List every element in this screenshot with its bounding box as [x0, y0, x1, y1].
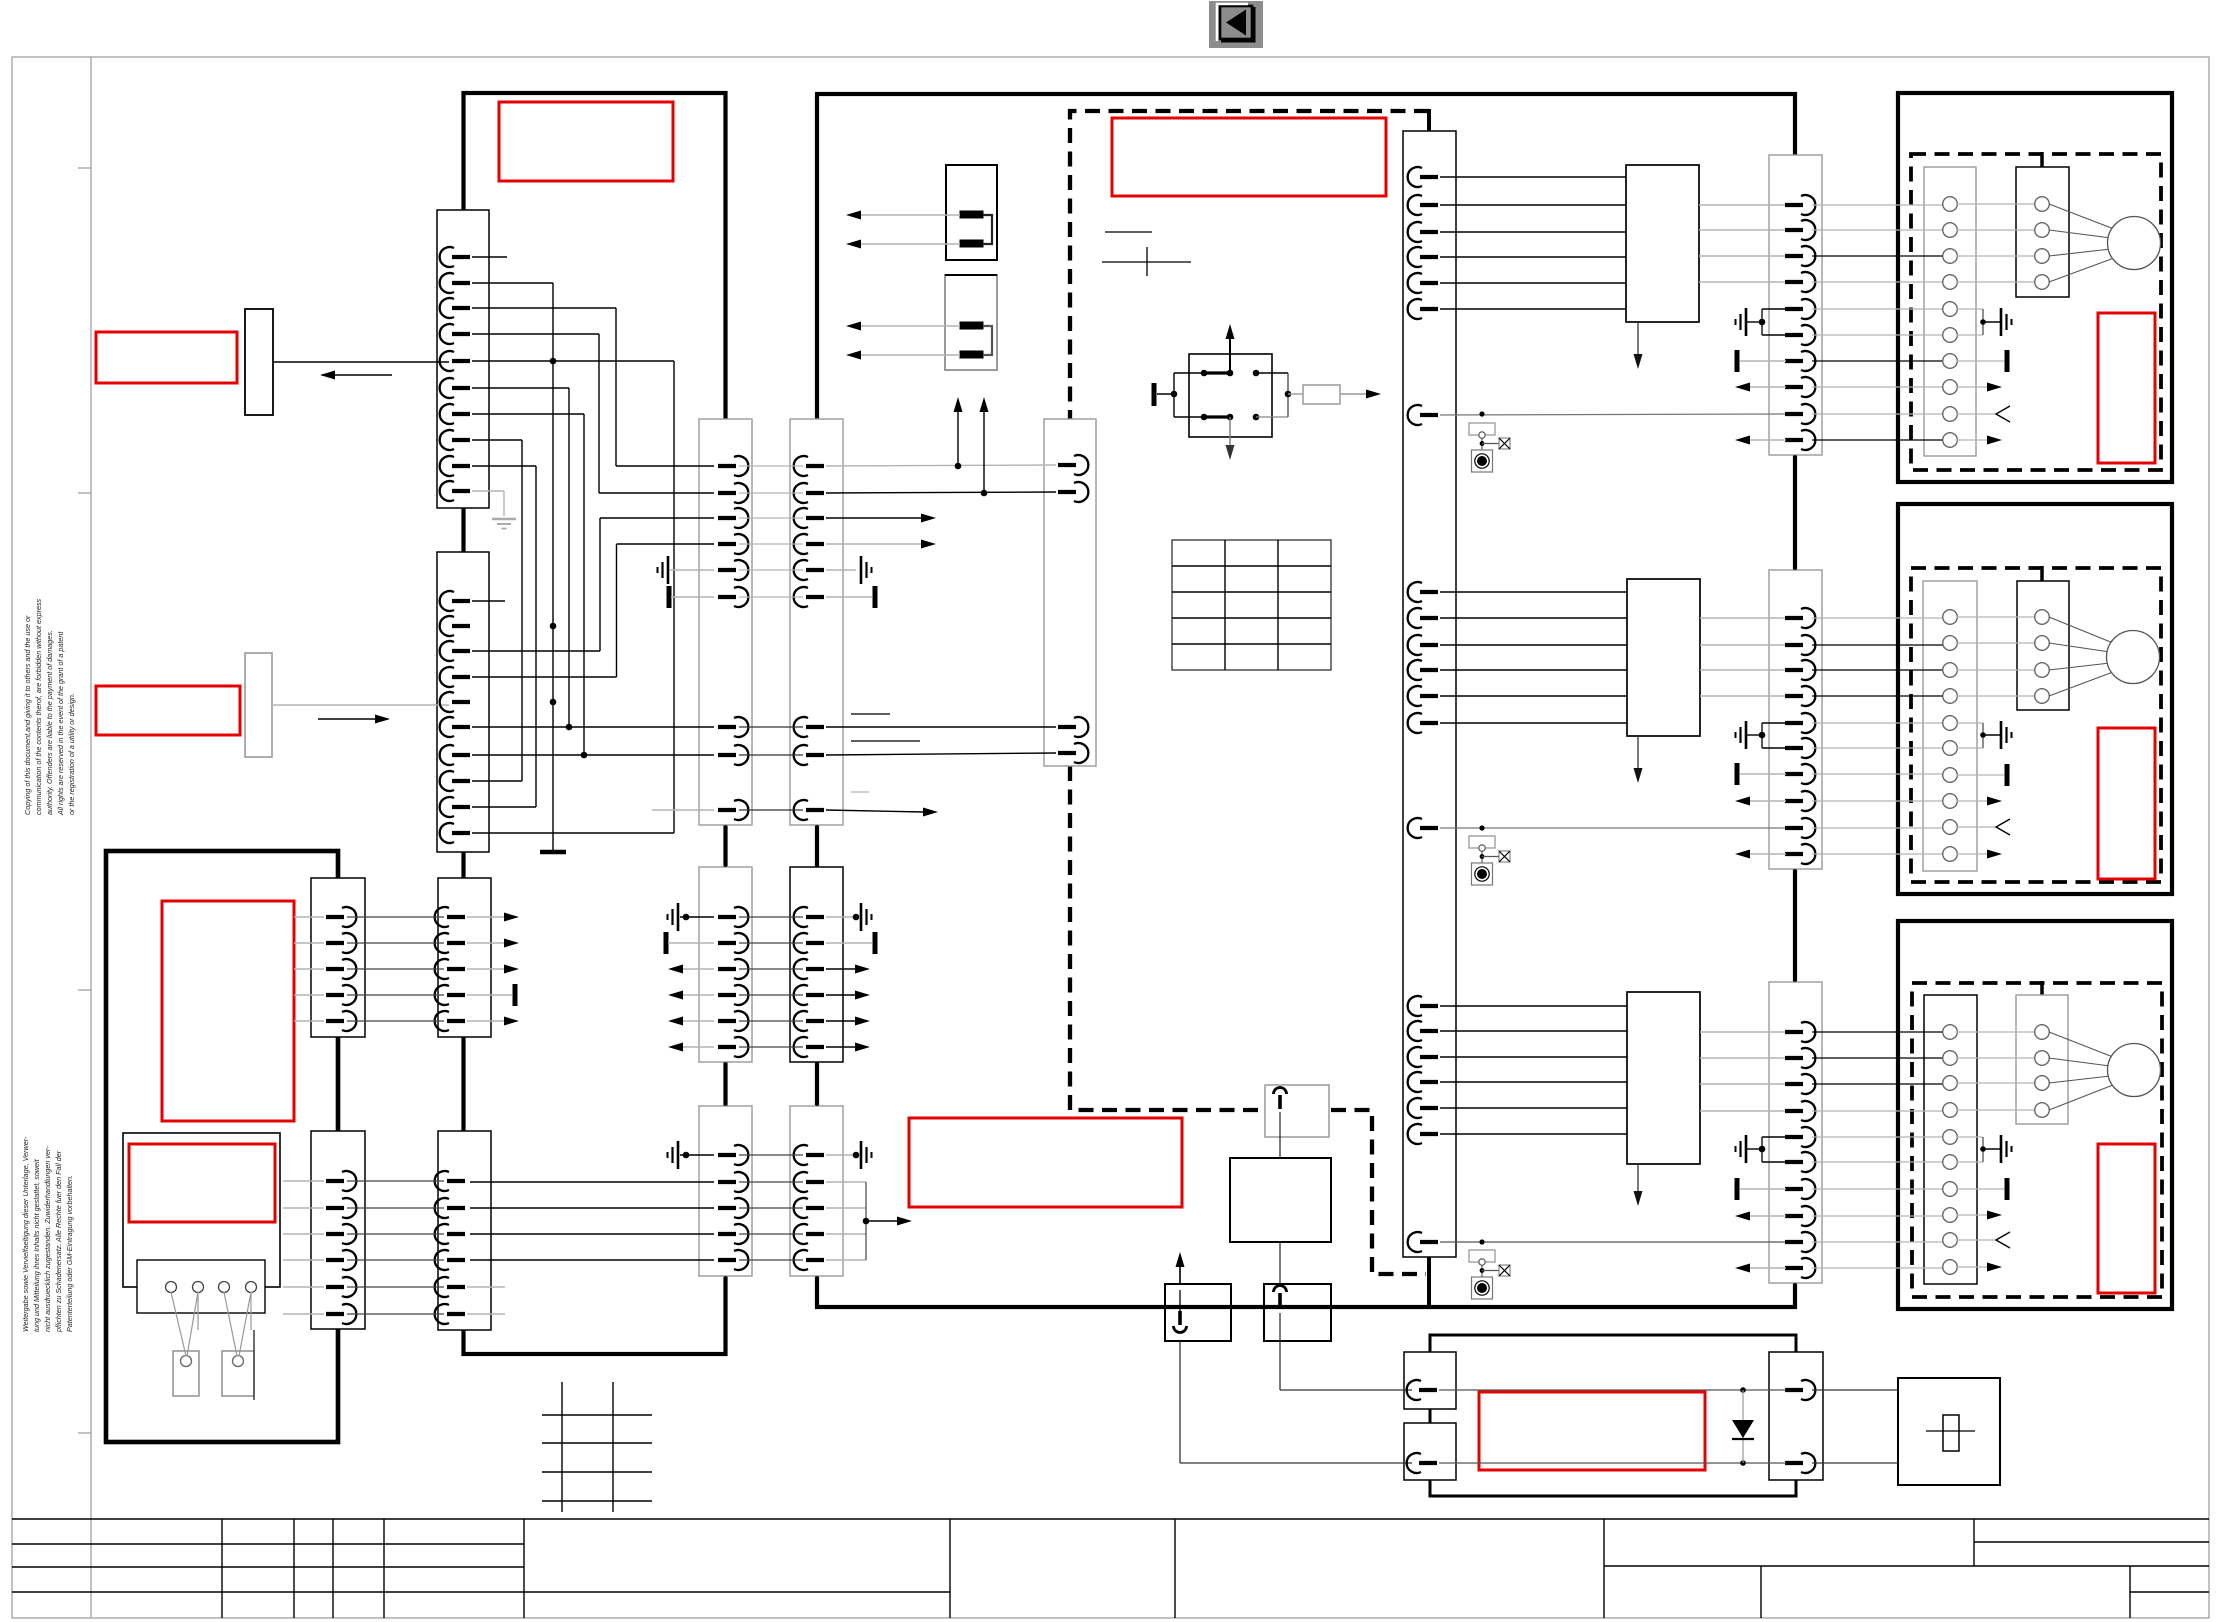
connector X4c (K2 left edge, lower)	[790, 1106, 843, 1276]
M1 termination	[1957, 360, 2004, 362]
mating wires X3c-X4c	[739, 1155, 803, 1260]
aerial coupler W1	[1265, 1085, 1329, 1137]
connector strip in actuator M2 (inner)	[2017, 581, 2069, 710]
red label box (component S1)	[96, 332, 237, 383]
wire X1a.9 to X1b.9	[472, 465, 536, 467]
M2 output arrow	[1957, 853, 1988, 855]
red label box (immobiliser)	[909, 1118, 1182, 1207]
connector X2a pins	[435, 907, 465, 1031]
connector X10b (K4 left, lower plug)	[1404, 1423, 1456, 1480]
termination X6b.7	[1740, 773, 1786, 775]
red label box (component S2)	[96, 686, 240, 735]
wires from K3 to X7b	[283, 1180, 324, 1182]
relay box K5 outline (bottom-right)	[1898, 1378, 2000, 1485]
termination at X3a.6	[668, 586, 670, 608]
motor M3	[2108, 1044, 2161, 1097]
connector strip in actuator M3 (outer)	[1924, 995, 1977, 1284]
connector X9 on dashed boundary	[1044, 419, 1096, 766]
S3 contact upper	[1204, 371, 1230, 374]
R2 link wire	[983, 326, 992, 355]
S3 left riser	[1173, 373, 1175, 417]
glow element R1b	[960, 240, 983, 247]
long wire X1b.7 to X3a.8	[472, 754, 714, 756]
connector X6b (K2 right edge, middle)	[1769, 570, 1822, 869]
connector X4a (K2 left edge, upper)	[790, 419, 843, 825]
actuator M1 inner wires	[1957, 204, 2035, 282]
bulb B1	[173, 1351, 199, 1396]
wire X1b.3 to X3a.3	[472, 650, 600, 652]
mating wires X7b-X2b	[347, 1181, 444, 1314]
A2 output arrow down	[1637, 736, 1639, 771]
svg-text:All rights are reserved in the: All rights are reserved in the event of …	[56, 631, 65, 816]
svg-text:pflichten zu Schadenersatz. Al: pflichten zu Schadenersatz. Alle Rechte …	[54, 1150, 63, 1333]
connector X6c (K2 right edge, lower)	[1769, 982, 1822, 1283]
connector X3b (K1 right edge, middle)	[699, 867, 752, 1062]
wire X1b.1 stub	[472, 600, 505, 602]
bulb B2 terminal stroke	[253, 1330, 255, 1400]
output arrow X6a.10	[1749, 439, 1786, 441]
wire X4a.4 output arrow	[826, 543, 922, 545]
S3 output arrow down (gray)	[1229, 417, 1231, 448]
red label box (K1 title)	[499, 102, 673, 181]
solid stubs joining dashed boundary to connector X5	[1427, 109, 1431, 133]
navigation back button icon	[1209, 1, 1263, 48]
wire X1a.6 junction	[472, 387, 569, 389]
wire X1a.7 junction	[472, 413, 584, 415]
bulb wiring	[171, 1292, 186, 1356]
connector X2b (K1 left bottom pair)	[438, 1131, 491, 1330]
connector X2a (K1 left lower pair)	[438, 878, 491, 1037]
power module K4 outline (bottom-centre)	[1430, 1335, 1796, 1496]
ground bracket X6b.5-6	[1762, 722, 1786, 724]
glow element box R2	[945, 275, 997, 370]
termination X6a.7	[1740, 360, 1786, 362]
connector X1b (K1 left, lower)	[437, 552, 489, 852]
ground bracket X6c.5-6	[1762, 1136, 1786, 1138]
switch S1 body	[245, 309, 273, 415]
wires X2b to X3c.2-5	[470, 1181, 714, 1183]
control module K1 outline (top-left)	[464, 93, 726, 1354]
connector X5 pins (upper group)	[1408, 167, 1438, 425]
pickup unit W3	[1165, 1284, 1231, 1341]
ground at X3c.1	[668, 1141, 679, 1169]
aerial W2	[1264, 1284, 1331, 1341]
wires X5 to A2	[1440, 592, 1627, 723]
ground at X4b.1	[826, 916, 856, 918]
copyright notice text (german)	[21, 1136, 74, 1333]
dashed harness boundary (centre)	[1070, 111, 1429, 1274]
termination at X4b.2	[826, 942, 872, 944]
connector X7a (K3 right edge, upper)	[311, 878, 365, 1037]
wire X1a.3 to X3a.1	[472, 307, 616, 309]
K3 inner display housing	[123, 1133, 280, 1287]
direction arrow (right)	[318, 718, 388, 720]
dashed boundary of actuator M3	[1912, 983, 2162, 1297]
termination at X3b.2	[665, 932, 667, 954]
stub joining dashed boundary to connector (M3)	[2040, 981, 2044, 996]
S3 battery bar	[1152, 383, 1157, 406]
svg-text:or the registration of a utili: or the registration of a utility or desi…	[67, 693, 76, 815]
stub joining dashed boundary to connector (M1)	[2040, 152, 2044, 168]
wires X6b to actuator M2	[1812, 618, 1943, 854]
label line (wire code)	[1105, 231, 1152, 233]
connector X10a (K4 left, upper plug)	[1404, 1352, 1456, 1409]
connector X3c (K1 right edge, lower)	[699, 1106, 752, 1276]
label cross mark	[1102, 261, 1191, 263]
S3 contact lower	[1204, 415, 1230, 418]
bracket X4c.2-5 with output arrow	[826, 1181, 866, 1183]
driver block A3	[1627, 992, 1700, 1164]
output arrow X6c.10	[1749, 1267, 1786, 1269]
actuator M3 outer contacts	[1943, 1025, 1958, 1275]
actuator M1 inner contacts	[2035, 197, 2050, 290]
M2 open connector	[1957, 826, 1995, 828]
A1 output arrow down	[1637, 322, 1639, 357]
actuator M1 outer contacts	[1943, 197, 1958, 448]
connector X7a pins	[326, 907, 356, 1031]
output arrow X6a.8	[1749, 386, 1786, 388]
wire W1 to A4	[1279, 1112, 1281, 1158]
K4 wire upper	[1439, 1389, 1786, 1391]
ignition switch S3 box	[1189, 354, 1272, 437]
actuator M2 inner wires	[1957, 617, 2035, 696]
wire X1a.1 stub	[472, 256, 507, 258]
wire S2 to X1b (signal)	[272, 704, 449, 706]
bus termination bar	[540, 850, 566, 855]
ground at X3a.5	[658, 556, 669, 584]
red label box (K2 title)	[1112, 118, 1386, 196]
title block table	[12, 1519, 2209, 1618]
wire X4a.9 output arrow	[826, 810, 924, 812]
label line (wire code)	[851, 791, 869, 793]
wires X5 to A3	[1440, 1006, 1627, 1134]
valve/pump cluster Y3	[1479, 1239, 1484, 1244]
wire X4a.1 to X9.1 (branch arrow)	[826, 465, 1056, 466]
connector X7b pins	[326, 1171, 356, 1324]
wire X1a.4 to X3a.2	[472, 333, 599, 335]
connector X4a pins	[794, 456, 824, 820]
actuator unit M1 outline (right top)	[1898, 93, 2172, 482]
wire X4a.7 to X9.3	[826, 726, 1056, 728]
M3 termination	[1957, 1188, 2004, 1190]
stub X3a.9	[652, 809, 714, 811]
svg-text:Copying of this document,and g: Copying of this document,and giving it t…	[23, 615, 32, 815]
M1 internal ground bracket	[1957, 308, 1983, 310]
sensor wire X5.7 to X6a.9	[1440, 414, 1786, 415]
M3 internal ground bracket	[1957, 1136, 1983, 1138]
wires X5 to A1	[1440, 177, 1626, 309]
S3 right contacts	[1253, 370, 1260, 377]
connector X6c pins	[1785, 1022, 1815, 1278]
wire W3 down to X10b	[1179, 1341, 1181, 1463]
wire X4a.8 to X9.4	[826, 753, 1056, 755]
ground at X4a.5	[826, 569, 856, 571]
trunk segments on module edges	[337, 455, 1795, 1354]
sensor wire X5.21 to X6c.9	[1440, 1241, 1786, 1243]
instrument module K3 outline (bottom-left)	[106, 851, 338, 1442]
svg-text:tung und Mitteilung ihres Inha: tung und Mitteilung ihres Inhalts nicht …	[32, 1158, 41, 1332]
valve/pump cluster Y2	[1479, 825, 1484, 830]
svg-text:communication of the contents: communication of the contents therof, ar…	[34, 598, 43, 815]
wire X1a.8 to X1b.8	[472, 439, 522, 441]
connector X4b pins	[794, 907, 824, 1057]
output arrows X3b.3-6	[682, 968, 714, 970]
stub joining dashed boundary to connector (M2)	[2040, 566, 2044, 582]
output arrows X2a	[467, 916, 505, 918]
connector X1a (K1 left, upper)	[437, 210, 489, 508]
connector X6b pins	[1785, 608, 1815, 864]
wire W2 down to X10a	[1279, 1313, 1281, 1390]
termination X6c.7	[1740, 1188, 1786, 1190]
connector strip in actuator M1 (inner)	[2016, 167, 2069, 297]
connector X10a pin	[1407, 1380, 1437, 1400]
svg-text:Weitergabe sowie Vervielfaelti: Weitergabe sowie Vervielfaeltigung diese…	[21, 1136, 30, 1332]
connector X10b pin	[1407, 1453, 1437, 1473]
ground at X3b.1	[668, 903, 679, 931]
wire X1a.10 to signal ground	[472, 490, 504, 492]
termination at X4a.6	[826, 596, 872, 598]
R1 feed wires with arrows	[858, 214, 960, 216]
connector X1b pins	[440, 591, 470, 843]
M3 output arrow	[1957, 1266, 1988, 1268]
connector strip in actuator M2 (outer)	[1923, 581, 1977, 871]
signal ground symbol (gray)	[492, 519, 516, 529]
switch S2 body	[245, 653, 272, 757]
M2 internal ground bracket	[1957, 722, 1983, 724]
svg-text:Patenterteilung oder GM-Eintra: Patenterteilung oder GM-Eintragung vorbe…	[65, 1175, 74, 1332]
wire A4 to W2	[1279, 1242, 1281, 1284]
connector X1a pins	[440, 247, 470, 501]
connector strip in actuator M1 (outer)	[1924, 167, 1976, 456]
termination at X2a.4	[467, 994, 512, 996]
output arrows X4b.3-6	[826, 968, 856, 970]
connector X3b pins	[718, 907, 748, 1057]
dashed boundary of actuator M2	[1911, 568, 2161, 882]
ground bracket X6a.5-6	[1762, 308, 1786, 310]
actuator M3 inner wires	[1957, 1032, 2035, 1110]
W3 output arrow up	[1179, 1257, 1181, 1284]
red label box (display)	[129, 1144, 275, 1222]
revision tally grid	[542, 1382, 652, 1512]
A2 outputs to X6b	[1700, 618, 1786, 696]
connector X3a pins	[718, 456, 748, 820]
immobiliser control unit A4	[1230, 1158, 1331, 1242]
A3 outputs to X6c	[1700, 1032, 1786, 1111]
wire X4a.2 to X9.2 (branch arrow)	[826, 492, 1056, 493]
body control module K2 outline (centre)	[817, 94, 1795, 1307]
label line (wire code)	[851, 713, 890, 715]
wire net X1a.2 vertical bus	[472, 282, 553, 284]
M1 output arrow	[1957, 439, 1988, 441]
output arrow X6b.8	[1749, 800, 1786, 802]
red label box (actuator M1)	[2098, 313, 2155, 463]
connector X4b (K2 left edge, middle)	[790, 867, 843, 1062]
red label box (actuator M3)	[2098, 1144, 2155, 1293]
glow element R1a	[960, 211, 983, 218]
wires X6a to actuator M1	[1812, 205, 1943, 440]
A1 outputs to X6a	[1699, 205, 1786, 282]
glow element R2b	[960, 351, 983, 358]
connector X3c pins	[718, 1145, 748, 1270]
wires X11 to relay box K5	[1812, 1389, 1898, 1391]
connector X11 (K4 right plug)	[1769, 1352, 1823, 1480]
M1 output arrow	[1957, 386, 1988, 388]
label line (wire code)	[851, 740, 920, 742]
glow element R2a	[960, 322, 983, 329]
connector X9 pins	[1058, 455, 1088, 763]
output arrow X6b.10	[1749, 853, 1786, 855]
S3 output arrow up	[1229, 329, 1231, 373]
A3 output arrow down	[1637, 1164, 1639, 1194]
M3 open connector	[1957, 1239, 1995, 1241]
wire X1b.4 to X3a.4	[472, 676, 617, 678]
connector strip in actuator M3 (inner)	[2016, 995, 2068, 1124]
wire S1 to X1a	[273, 361, 449, 363]
dashed boundary of actuator M1	[1911, 154, 2161, 470]
M2 termination	[1957, 774, 2004, 776]
lamp contacts	[166, 1282, 177, 1293]
connector X3a (K1 right edge, upper)	[699, 419, 752, 825]
actuator M2 inner contacts	[2035, 610, 2050, 704]
actuator M2 outer contacts	[1943, 610, 1958, 862]
copyright notice text (english)	[23, 598, 76, 816]
M3 output arrow	[1957, 1214, 1988, 1216]
wires from K3 display to X7a	[294, 916, 324, 918]
wires X6c to actuator M3	[1812, 1032, 1943, 1268]
svg-text:nicht ausdruecklich zugestande: nicht ausdruecklich zugestanden. Zuwider…	[43, 1146, 52, 1332]
M2 output arrow	[1957, 800, 1988, 802]
S3 feed wire	[1157, 393, 1174, 395]
ground at X4c.1	[826, 1154, 856, 1156]
connector X5 pins (lower group)	[1408, 996, 1438, 1252]
output arrow X6c.8	[1749, 1215, 1786, 1217]
relay K5 element	[1943, 1415, 1959, 1451]
series resistor R3	[1288, 393, 1303, 395]
connector X7b (K3 right edge, lower)	[311, 1131, 365, 1329]
connector X4c pins	[794, 1145, 824, 1270]
wire X4a.3 output arrow	[826, 517, 922, 519]
red label box (K3 title)	[162, 901, 294, 1121]
svg-text:authority. Offenders are liabl: authority. Offenders are liable to the p…	[45, 630, 54, 815]
driver block A1	[1626, 165, 1699, 322]
red label box (actuator M2)	[2098, 728, 2155, 879]
actuator unit M2 outline (right middle)	[1898, 504, 2172, 894]
diode V1	[1742, 1390, 1744, 1463]
connector X5 pins (middle group)	[1408, 582, 1438, 838]
connector X6a pins	[1785, 195, 1815, 450]
motor M3 feed lines	[2049, 1032, 2113, 1057]
M1 open connector	[1957, 413, 1995, 415]
mating wires X3a-X4a	[739, 466, 803, 810]
motor M1 feed lines	[2049, 204, 2114, 229]
motor M2 feed lines	[2049, 617, 2113, 643]
mating wires X7a-X2a	[347, 917, 444, 1021]
R2 feed wires with arrows	[858, 325, 960, 327]
diagnosis table grid	[1172, 540, 1331, 670]
actuator unit M3 outline (right bottom)	[1898, 921, 2172, 1309]
connector X2b pins	[435, 1171, 465, 1324]
sensor wire X5.14 to X6b.9	[1440, 827, 1786, 829]
motor M1	[2108, 217, 2161, 270]
valve/pump cluster Y1	[1479, 411, 1484, 416]
driver block A2	[1627, 579, 1700, 736]
glow element box R1	[946, 165, 997, 260]
long wire X1b.6 to X3a.7	[472, 726, 714, 728]
connector X5 (harness, tall)	[1403, 131, 1456, 1257]
connector X6a (K2 right edge, upper)	[1769, 155, 1822, 455]
junction dots	[550, 623, 557, 630]
R1 link wire	[983, 215, 992, 244]
stubs X2b.5-6	[467, 1286, 505, 1288]
wire X1a.5 to X1b.10	[472, 360, 674, 362]
K4 wire lower	[1439, 1462, 1786, 1464]
bulb B2	[222, 1351, 254, 1396]
red label box (K4 title)	[1479, 1392, 1705, 1470]
K3 lamp carrier box	[137, 1260, 265, 1313]
actuator M3 inner contacts	[2035, 1025, 2050, 1118]
mating wires X3b-X4b	[739, 917, 803, 1047]
motor M2	[2107, 631, 2160, 684]
connector X11 pins	[1785, 1380, 1815, 1400]
direction arrow (left)	[322, 374, 392, 376]
